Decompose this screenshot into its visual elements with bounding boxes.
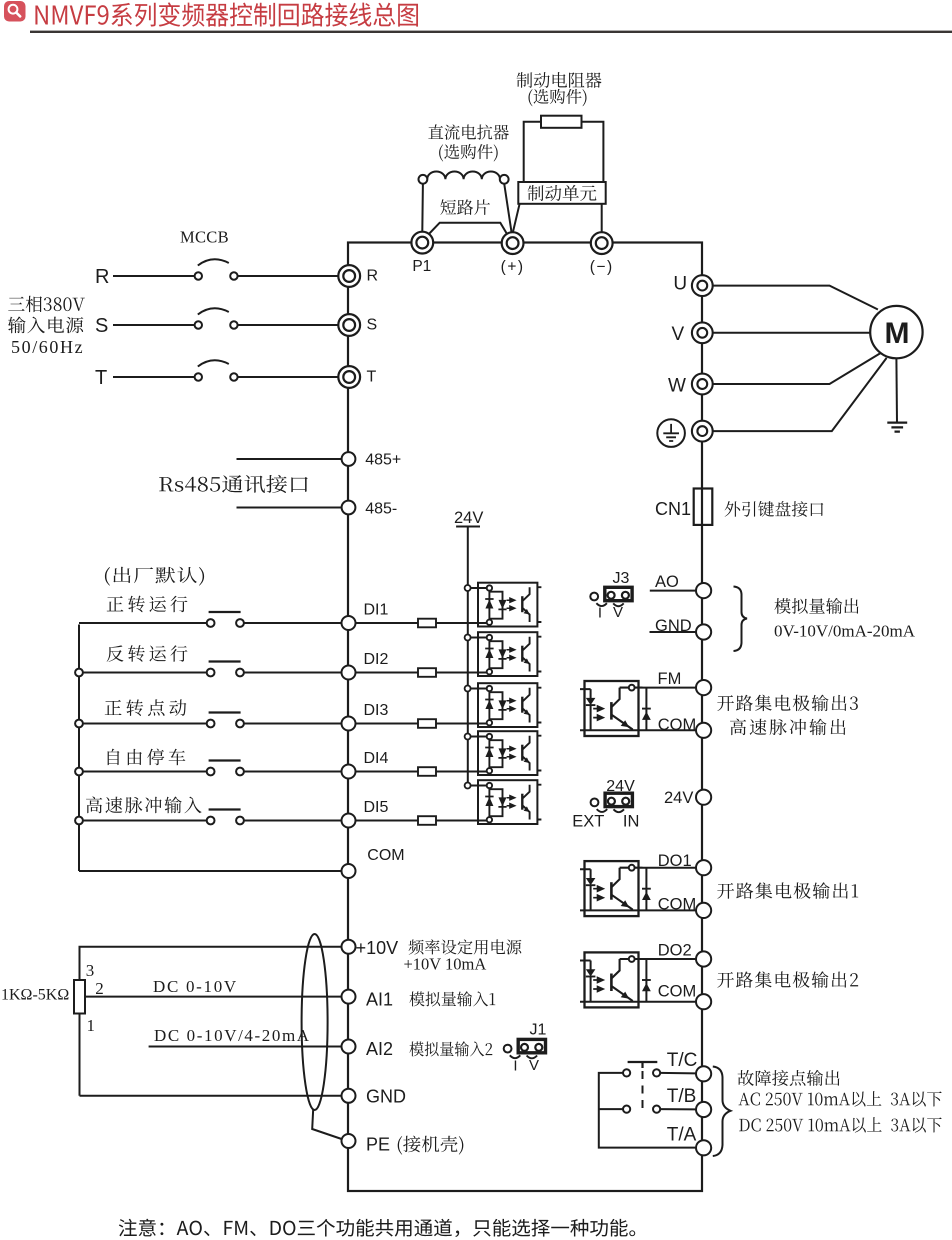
svg-text:T: T — [367, 369, 377, 386]
svg-text:(−): (−) — [590, 259, 614, 276]
svg-text:P1: P1 — [412, 258, 431, 275]
svg-text:2: 2 — [95, 979, 104, 998]
svg-text:(+): (+) — [501, 259, 525, 276]
svg-text:COM: COM — [367, 847, 404, 864]
svg-text:DI4: DI4 — [364, 750, 389, 767]
svg-text:MCCB: MCCB — [180, 228, 229, 247]
svg-text:DI5: DI5 — [364, 799, 389, 816]
svg-text:1: 1 — [87, 1016, 96, 1035]
svg-text:PE: PE — [366, 1135, 390, 1155]
svg-text:DI2: DI2 — [364, 651, 389, 668]
svg-text:FM: FM — [658, 670, 682, 688]
svg-text:3: 3 — [86, 961, 95, 980]
svg-text:T/B: T/B — [667, 1086, 697, 1107]
svg-text:DC 0-10V/4-20mA: DC 0-10V/4-20mA — [154, 1026, 311, 1045]
svg-text:DC 0-10V: DC 0-10V — [153, 977, 238, 996]
svg-text:T/A: T/A — [667, 1124, 697, 1145]
svg-text:S: S — [95, 315, 108, 337]
svg-text:COM: COM — [658, 983, 697, 1001]
svg-text:GND: GND — [655, 617, 692, 635]
svg-text:V: V — [613, 604, 623, 621]
svg-text:AI2: AI2 — [366, 1039, 393, 1059]
svg-text:COM: COM — [658, 896, 697, 914]
svg-text:J1: J1 — [530, 1021, 547, 1038]
svg-text:T/C: T/C — [667, 1050, 698, 1071]
svg-text:DO2: DO2 — [658, 941, 692, 959]
svg-text:I: I — [513, 1058, 517, 1075]
svg-text:DO1: DO1 — [658, 852, 692, 870]
svg-text:W: W — [668, 375, 686, 396]
svg-text:50/60Hz: 50/60Hz — [11, 337, 84, 357]
svg-text:R: R — [95, 266, 109, 288]
svg-text:DI3: DI3 — [364, 702, 389, 719]
svg-text:0V-10V/0mA-20mA: 0V-10V/0mA-20mA — [774, 621, 916, 640]
svg-text:IN: IN — [623, 812, 640, 830]
svg-text:COM: COM — [658, 716, 697, 734]
svg-text:CN1: CN1 — [655, 499, 691, 519]
svg-text:V: V — [529, 1057, 539, 1074]
svg-text:V: V — [672, 324, 685, 345]
svg-text:1KΩ-5KΩ: 1KΩ-5KΩ — [1, 986, 69, 1003]
svg-text:24V: 24V — [454, 509, 483, 527]
svg-text:R: R — [367, 268, 379, 285]
svg-text:485+: 485+ — [365, 451, 401, 468]
svg-text:AI1: AI1 — [366, 990, 393, 1010]
svg-text:+10V 10mA: +10V 10mA — [404, 955, 487, 974]
svg-text:S: S — [367, 317, 378, 334]
svg-text:485-: 485- — [365, 500, 397, 517]
svg-text:AO: AO — [655, 573, 679, 591]
svg-text:EXT: EXT — [572, 812, 604, 830]
svg-text:U: U — [673, 274, 687, 295]
svg-text:I: I — [598, 605, 602, 622]
svg-text:+10V: +10V — [356, 938, 399, 958]
svg-text:24V: 24V — [606, 778, 635, 795]
svg-text:GND: GND — [366, 1087, 406, 1107]
svg-text:T: T — [95, 367, 107, 389]
svg-text:J3: J3 — [613, 570, 630, 587]
svg-text:M: M — [885, 317, 910, 350]
svg-text:24V: 24V — [664, 789, 693, 807]
svg-text:DI1: DI1 — [364, 602, 389, 619]
